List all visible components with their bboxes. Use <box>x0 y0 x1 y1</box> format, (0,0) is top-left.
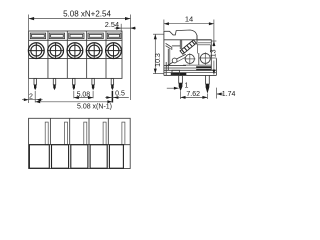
dimension 2 line <box>22 99 43 101</box>
side base lines <box>164 65 186 67</box>
pin5 extension <box>111 91 113 103</box>
pin3 extension <box>73 91 75 99</box>
pin1 extension <box>34 91 36 103</box>
svg-text:5.08 x(N-1): 5.08 x(N-1) <box>77 103 112 110</box>
svg-text:1.74: 1.74 <box>222 91 236 98</box>
dimension 14 line <box>164 23 214 25</box>
bottom view divider 3 <box>88 118 90 144</box>
wire entry slots row <box>30 33 121 39</box>
svg-text:1: 1 <box>185 83 189 90</box>
unit divider 2 <box>66 31 68 78</box>
bottom view outline <box>29 118 131 168</box>
dimension 2 extension <box>28 79 30 103</box>
side view right top edge and right edge <box>197 40 211 71</box>
dimension 13 ext top <box>212 40 217 42</box>
svg-text:2.54: 2.54 <box>105 20 119 29</box>
dimension 1.74 ext <box>216 88 218 99</box>
pin 1 front <box>34 78 36 90</box>
side inner wall lines <box>179 40 181 49</box>
pin 4 front <box>92 78 94 90</box>
dimension 14 extension left <box>163 20 165 31</box>
unit divider 4 <box>105 31 107 78</box>
front view body outline <box>29 31 122 78</box>
side base dark segments <box>171 73 187 75</box>
leg extensions <box>180 91 182 99</box>
side view body outline <box>164 30 197 75</box>
front view mid line under screws <box>29 58 122 60</box>
side bottom edge <box>164 74 217 76</box>
front view top strip line <box>29 39 122 41</box>
side chamber wall upper <box>196 45 198 54</box>
side wire funnel floor <box>172 45 180 47</box>
dimension 10.3 ext <box>153 33 164 35</box>
pin 5 front <box>111 78 113 90</box>
bottom view divider 4 <box>107 118 109 144</box>
side right flange <box>215 58 217 75</box>
bottom view clamp squares <box>29 145 123 169</box>
dimension 2.54 line <box>115 27 137 29</box>
side leg left <box>179 75 183 91</box>
side screw shaft hatched <box>180 40 196 54</box>
svg-text:5.08 xN+2.54: 5.08 xN+2.54 <box>63 9 111 18</box>
unit divider 1 <box>47 31 49 78</box>
dimension 10.3 line <box>154 34 156 73</box>
dimension 7.62 line <box>181 96 208 98</box>
dimension 2.54 extension <box>120 24 122 32</box>
dimension 5.08xN+2.54 line <box>29 18 131 20</box>
dimension 0.5 line <box>105 97 129 99</box>
dimension 5.08xN+2.54 extension right <box>130 15 132 101</box>
screw heads row <box>28 43 121 59</box>
pin 3 front <box>73 78 75 90</box>
bottom view divider 2 <box>69 118 71 144</box>
dimension 1.74 arrow <box>217 93 223 95</box>
dimension 14 extension right / 13 dim line <box>213 20 215 47</box>
bottom view mid line <box>29 144 131 146</box>
svg-text:0.5: 0.5 <box>115 91 125 98</box>
side wire hole circle <box>200 53 210 63</box>
svg-text:13: 13 <box>211 49 218 57</box>
side view right step lines <box>198 42 211 44</box>
dimension 5.08x(N-1) line <box>35 101 112 103</box>
side clamp diagonals <box>177 54 186 59</box>
side contact foot <box>172 70 180 75</box>
svg-text:10.3: 10.3 <box>155 53 162 67</box>
dimension 1 line <box>167 87 179 89</box>
side view lever corner vertical <box>196 35 198 44</box>
side chamber divider <box>198 53 200 66</box>
side left slot wedge <box>166 43 172 50</box>
svg-text:5.08: 5.08 <box>77 92 91 99</box>
bottom view pin slots <box>45 122 125 145</box>
side clamp small circle <box>172 58 177 63</box>
bottom view divider 1 <box>49 118 51 144</box>
side screw pivot circle <box>185 54 194 63</box>
side view main horizontal line <box>164 39 211 41</box>
dimension 5.08 line <box>74 97 93 99</box>
side left wall inner line <box>165 62 167 75</box>
side leg right <box>206 75 210 93</box>
svg-text:2: 2 <box>29 93 33 100</box>
dimension 5.08xN+2.54 extension left <box>28 15 30 31</box>
svg-text:7.62: 7.62 <box>186 91 200 98</box>
pin4 extension <box>92 91 94 99</box>
pin 2 front <box>53 78 55 90</box>
unit divider 3 <box>86 31 88 78</box>
svg-text:14: 14 <box>185 14 193 23</box>
dimension 13 arrows <box>212 41 215 46</box>
